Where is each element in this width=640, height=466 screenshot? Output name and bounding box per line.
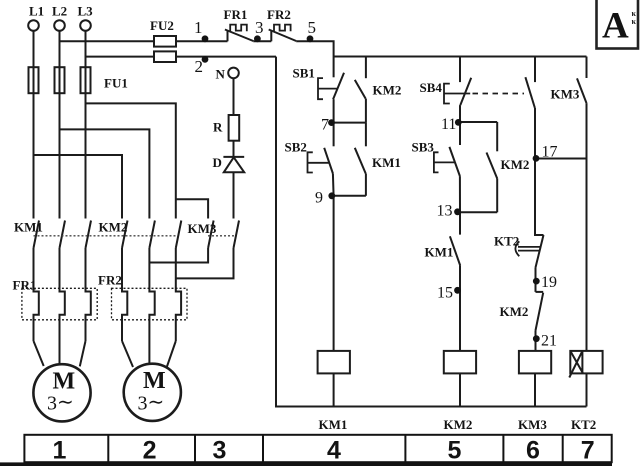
fuse FU1 pole2 xyxy=(55,67,65,93)
contactor KM2 pole2 blade xyxy=(149,221,155,249)
contact KM1 branch1 blade xyxy=(355,148,366,174)
terminal L3 xyxy=(80,20,91,31)
svg-text:M: M xyxy=(143,368,166,394)
motor M2 circle xyxy=(124,364,181,421)
node 3 dot xyxy=(254,35,261,42)
svg-text:KM3: KM3 xyxy=(188,221,217,236)
contact KM1 branch2 blade xyxy=(450,236,460,265)
mechanical link SB4 dashed xyxy=(473,93,525,95)
svg-text:KM3: KM3 xyxy=(551,87,580,102)
wire L1 branch to KM2 pole1 xyxy=(34,155,123,219)
pushbutton SB3 blade xyxy=(449,147,460,176)
branch1 SB1 upper lead xyxy=(333,57,335,78)
svg-text:KT2: KT2 xyxy=(571,417,596,432)
wire to node17 xyxy=(534,108,536,159)
svg-text:4: 4 xyxy=(327,437,341,465)
contactor KM1 pole2 blade xyxy=(60,221,66,249)
svg-text:11: 11 xyxy=(441,116,456,133)
terminal L2 xyxy=(54,20,65,31)
branch1 SB2 upper lead xyxy=(333,123,335,147)
top control bus xyxy=(334,56,587,58)
contact FR2 blade xyxy=(269,30,297,42)
wire resistor to diode xyxy=(233,141,235,157)
svg-text:KM1: KM1 xyxy=(425,245,454,260)
svg-text:R: R xyxy=(213,120,223,135)
node11 horizontal xyxy=(460,121,497,123)
motor M1 circle xyxy=(33,364,90,421)
wire L2 vertical xyxy=(59,31,61,219)
svg-text:3: 3 xyxy=(255,18,264,37)
svg-text:KM3: KM3 xyxy=(518,417,547,432)
wire L2 branch to KM2 pole2 xyxy=(60,129,150,218)
node 2 dot xyxy=(202,56,209,63)
svg-text:SB3: SB3 xyxy=(412,140,435,155)
diode D bar xyxy=(223,156,244,158)
svg-text:FR2: FR2 xyxy=(98,273,122,288)
svg-text:L3: L3 xyxy=(78,4,94,19)
dotted link KM1-KM2 poles xyxy=(34,235,177,237)
svg-text:17: 17 xyxy=(542,144,558,161)
svg-text:FR2: FR2 xyxy=(267,7,291,22)
svg-text:3: 3 xyxy=(213,437,227,465)
wire tee to KM3 pole1 xyxy=(176,199,208,218)
svg-text:9: 9 xyxy=(315,190,323,207)
contact KM2 branch3 step xyxy=(536,291,544,293)
wire motor2 leads xyxy=(122,341,133,367)
wire SB2 to node9 xyxy=(332,174,335,351)
contact KM1 branch1 lower lead xyxy=(365,174,367,196)
svg-text:15: 15 xyxy=(437,285,453,302)
contactor KM2 pole1 blade xyxy=(122,221,128,249)
svg-text:5: 5 xyxy=(308,18,317,37)
wire KM1 pole outputs to FR1 heaters xyxy=(34,248,39,341)
wire KM3 pole2 output to motor2 phaseC xyxy=(176,248,234,278)
svg-text:7: 7 xyxy=(581,437,595,465)
node 5 dot xyxy=(307,35,314,42)
wire SB1 to node7 xyxy=(333,99,335,122)
contact KM2 branch1 lower lead xyxy=(365,99,367,123)
node 19 dot xyxy=(533,278,540,285)
contactor KM2 pole3 blade xyxy=(176,221,182,249)
node9 horizontal xyxy=(334,195,366,197)
svg-text:N: N xyxy=(216,67,226,82)
svg-text:13: 13 xyxy=(437,203,453,220)
pushbutton SB2 pusher xyxy=(308,162,330,164)
contact FR2 riser xyxy=(270,30,272,41)
svg-text:D: D xyxy=(213,155,222,170)
fuse FU1 pole3 xyxy=(81,67,91,93)
fuse FU2 lower xyxy=(154,51,176,62)
wire node2 line xyxy=(176,56,276,58)
svg-text:KM1: KM1 xyxy=(372,155,401,170)
contact FR1 bracket xyxy=(230,25,247,32)
bottom black bar xyxy=(0,462,612,466)
wire motor1 leads xyxy=(34,341,44,366)
svg-text:M: M xyxy=(53,368,76,394)
FR1 thermal overload dotted box xyxy=(22,288,97,320)
pushbutton SB3 pusher xyxy=(434,161,455,163)
svg-text:KM2: KM2 xyxy=(373,83,402,98)
node 11 dot xyxy=(455,119,462,126)
diode D triangle xyxy=(224,157,244,172)
timer contact KT2 blade xyxy=(536,235,544,268)
svg-text:FR1: FR1 xyxy=(224,7,248,22)
wire node21 to coil KM3 xyxy=(535,331,537,351)
svg-text:3∼: 3∼ xyxy=(47,392,74,415)
wire KT2 contact to node19 xyxy=(535,268,537,292)
contactor KM3 pole2 blade xyxy=(234,221,240,249)
coil KM2 xyxy=(444,351,476,374)
contact KM2 branch2 lead from node11 xyxy=(496,122,498,151)
wire KM2 pole outputs to FR2 heaters xyxy=(122,248,127,341)
svg-text:A: A xyxy=(602,6,629,47)
wire KM1 contact to node15 and coil KM2 xyxy=(459,266,461,351)
wire KM3 pole1 output to motor2 phaseB xyxy=(149,248,208,263)
branch2 SB4 upper lead xyxy=(459,57,461,83)
node 13 dot xyxy=(454,208,461,215)
svg-text:FU1: FU1 xyxy=(104,76,128,91)
branch2 SB3 upper lead xyxy=(459,122,461,145)
svg-text:KM1: KM1 xyxy=(14,220,43,235)
pushbutton SB4 blade xyxy=(460,78,471,105)
svg-text:KM2: KM2 xyxy=(444,417,473,432)
wire node3 line xyxy=(253,40,271,42)
contact KM1 branch1 upper lead xyxy=(365,123,367,147)
terminal N xyxy=(228,68,239,79)
svg-text:7: 7 xyxy=(321,117,329,134)
wire L1 vertical xyxy=(33,31,35,219)
svg-text:2: 2 xyxy=(195,57,204,76)
contactor KM1 pole3 blade xyxy=(86,221,92,249)
node 17 dot xyxy=(533,155,540,162)
contactor KM1 pole1 blade xyxy=(34,221,40,249)
svg-text:KM2: KM2 xyxy=(501,157,530,172)
FR2 thermal overload dotted box xyxy=(112,288,188,320)
fuse FU1 pole1 xyxy=(29,67,39,93)
svg-text:KM2: KM2 xyxy=(500,304,529,319)
timer contact KT2 lead and step xyxy=(535,159,544,236)
svg-text:1: 1 xyxy=(52,437,66,465)
coil KM1 xyxy=(318,351,350,374)
node7 horizontal xyxy=(334,122,366,124)
pushbutton SB2 blade xyxy=(324,148,333,174)
resistor R xyxy=(229,115,240,141)
wire coil KM1 to bottom bus xyxy=(333,373,335,406)
node 21 dot xyxy=(533,335,540,342)
wire node5 line to control bus corner xyxy=(296,41,333,56)
wire L3 branch to KM2 pole3 xyxy=(86,103,176,218)
contactor KM3 pole1 blade xyxy=(208,221,214,249)
wire node1 line xyxy=(176,40,228,42)
svg-text:1: 1 xyxy=(194,18,203,37)
wire diode to KM3 pole2 xyxy=(233,172,235,218)
svg-text:SB2: SB2 xyxy=(285,140,307,155)
contact FR1 blade xyxy=(225,30,253,42)
node 15 dot xyxy=(454,287,461,294)
svg-text:KM2: KM2 xyxy=(99,220,128,235)
wire coil KM2 to bottom bus xyxy=(459,373,461,406)
svg-text:FR1: FR1 xyxy=(13,278,37,293)
coil KT2 divider and X xyxy=(569,351,583,378)
svg-text:FU2: FU2 xyxy=(150,18,174,33)
svg-text:2: 2 xyxy=(143,437,157,465)
pushbutton SB1 blade xyxy=(333,73,344,99)
branch3 SB4 NO pole upper lead xyxy=(534,57,536,83)
contact KM2 branch2 lower lead xyxy=(496,179,498,213)
timer KT2 delay arc xyxy=(515,241,519,256)
coil KT2 body xyxy=(570,351,602,374)
contact KM2 branch1 blade xyxy=(355,80,366,99)
svg-text:6: 6 xyxy=(526,437,540,465)
contact KM2 branch3 blade xyxy=(536,293,544,331)
fuse FU2 upper xyxy=(154,36,176,47)
pushbutton SB1 pusher xyxy=(318,88,337,90)
contact KM3 blade xyxy=(577,78,587,103)
node 7 dot xyxy=(328,119,335,126)
pushbutton SB4 pusher xyxy=(444,93,470,95)
wire KM3 contact down to KT2 coil xyxy=(586,103,588,351)
pushbutton SB1 bracket xyxy=(318,78,323,99)
node17 horizontal xyxy=(535,158,587,160)
neutral left vertical and bottom bus xyxy=(276,57,587,407)
node13 horizontal xyxy=(460,211,497,213)
timer KT2 delay bars xyxy=(518,247,541,251)
terminal L1 xyxy=(28,20,39,31)
wire SB3 to node13 xyxy=(459,176,461,235)
zone A box xyxy=(597,0,639,49)
contact FR1 riser xyxy=(227,30,229,41)
svg-text:L2: L2 xyxy=(52,4,67,19)
svg-text:KT2: KT2 xyxy=(494,234,519,249)
svg-text:5: 5 xyxy=(447,437,461,465)
table frame xyxy=(24,435,611,462)
svg-text:19: 19 xyxy=(541,274,557,291)
svg-text:21: 21 xyxy=(541,333,557,350)
dotted link KM3 poles xyxy=(208,235,235,237)
wire L3 vertical xyxy=(85,31,87,219)
pushbutton SB2 bracket xyxy=(308,152,313,172)
contact FR2 bracket xyxy=(274,25,291,32)
wire L2 to FU2 top fuse xyxy=(60,40,155,42)
pushbutton SB3 bracket xyxy=(434,152,439,172)
branch4 KM3 contact upper lead xyxy=(586,57,588,79)
contact SB4 NO blade xyxy=(525,77,535,108)
wire coil KM3 to bottom bus xyxy=(534,373,536,406)
svg-text:KM1: KM1 xyxy=(319,417,348,432)
svg-text:L1: L1 xyxy=(29,4,44,19)
coil KM3 xyxy=(519,351,551,374)
pushbutton SB4 bracket xyxy=(444,84,450,104)
wire SB4 to node11 xyxy=(459,105,461,122)
svg-text:κ: κ xyxy=(632,17,637,26)
svg-text:SB4: SB4 xyxy=(420,80,443,95)
node 1 dot xyxy=(202,35,209,42)
wire L3 to FU2 bottom fuse xyxy=(86,56,155,58)
node 9 dot xyxy=(328,192,335,199)
svg-text:3∼: 3∼ xyxy=(138,391,165,414)
wire coil KT2 to bottom bus xyxy=(586,373,588,406)
contact KM2 branch2 blade xyxy=(487,153,498,179)
contact KM2 branch1 upper lead xyxy=(365,57,367,79)
svg-text:SB1: SB1 xyxy=(293,66,315,81)
wire N to resistor xyxy=(233,78,235,115)
